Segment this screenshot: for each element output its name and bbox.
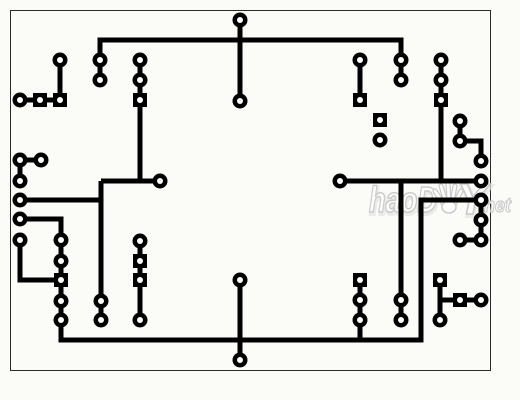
pad square (40,100) bbox=[33, 93, 47, 107]
wire (20,160)-(41,160) bbox=[20, 158, 41, 163]
pad (20,100) bbox=[13, 93, 28, 108]
pad (41,160) bbox=[34, 153, 49, 168]
pad (20,200) bbox=[13, 193, 28, 208]
pad (401,80) bbox=[394, 73, 409, 88]
pad (481,300) bbox=[474, 293, 489, 308]
pad square (60,100) bbox=[53, 93, 67, 107]
pad square (460,300) bbox=[453, 293, 467, 307]
pad (61,301) bbox=[54, 294, 69, 309]
pad (481,161) bbox=[474, 154, 489, 169]
pad (481,220) bbox=[474, 213, 489, 228]
wire vertical x=140 square(140,100) to T(140,181) bbox=[138, 100, 143, 181]
wire (460,141)-(481,141)-(481,161) bbox=[460, 141, 481, 161]
pad (240,360) bbox=[233, 353, 248, 368]
wire column x=441 top (441,60)-(441,100) bbox=[439, 60, 444, 100]
pad (140,320) bbox=[133, 313, 148, 328]
pad square (140,280) bbox=[133, 273, 147, 287]
pad (441,80) bbox=[434, 73, 449, 88]
pad (101,320) bbox=[94, 313, 109, 328]
pad square (360,280) bbox=[353, 273, 367, 287]
pad (100,80) bbox=[93, 73, 108, 88]
pad square (380,120) bbox=[373, 113, 387, 127]
wire horizontal y=200 pad(20,200) to T(101,200) bbox=[20, 198, 101, 203]
wire left horizontal y=181 (101,181)-(160,181) bbox=[101, 179, 160, 184]
pad (240,280) bbox=[233, 273, 248, 288]
pad (61,240) bbox=[54, 233, 69, 248]
wire stub (401,60)-(401,80) bbox=[399, 60, 404, 80]
pad square (441,100) bbox=[434, 93, 448, 107]
pad (440,320) bbox=[433, 313, 448, 328]
wire right horizontal y=181 (340,181)-(481,181) bbox=[340, 179, 481, 184]
pad square (140,100) bbox=[133, 93, 147, 107]
pad (481,240) bbox=[474, 233, 489, 248]
pad (61,261) bbox=[54, 254, 69, 269]
pad (100,60) bbox=[93, 53, 108, 68]
wire vertical x=240 pad(240,20) to pad(240,101) bbox=[238, 20, 243, 101]
pad (61,320) bbox=[54, 313, 69, 328]
pad (481,200) bbox=[474, 193, 489, 208]
pad (460,240) bbox=[453, 233, 468, 248]
pad (140,241) bbox=[133, 234, 148, 249]
wire column x=140 top (140,60)-(140,100) bbox=[138, 60, 143, 100]
wire x=481 chain (481,200)-(481,240) bbox=[479, 200, 484, 240]
wire big loop (20,219)-(61,219)-(61,340)-(421,340)-(421,200)-(481,200) bbox=[20, 200, 481, 340]
pad (20,160) bbox=[13, 153, 28, 168]
pad (340,181) bbox=[333, 174, 348, 189]
wire bar y=100 (20,100)-(60,100) bbox=[20, 98, 60, 103]
pad (101,301) bbox=[94, 294, 109, 309]
pad (140,80) bbox=[133, 73, 148, 88]
pad (401,60) bbox=[394, 53, 409, 68]
wire column x=360 (360,280)-(360,340) bbox=[358, 280, 363, 340]
pad (240,101) bbox=[233, 94, 248, 109]
wire vertical x=240 bottom pad(240,280) to pad(240,360) bbox=[238, 280, 243, 360]
pad square (140,261) bbox=[133, 254, 147, 268]
wire (440,300)-(481,300) bbox=[440, 298, 481, 303]
pad square (61,280) bbox=[54, 273, 68, 287]
wire stub (100,60)-(100,80) bbox=[98, 60, 103, 80]
pad square (360,100) bbox=[353, 93, 367, 107]
pad (360,60) bbox=[353, 53, 368, 68]
pad (360,300) bbox=[353, 293, 368, 308]
wire (60,60)-(60,100) bbox=[58, 60, 63, 100]
wire vertical x=101 (101,181)-(101,320) bbox=[99, 181, 104, 320]
pad (401,300) bbox=[394, 293, 409, 308]
wire column x=140 middle (140,241)-(140,320) bbox=[138, 241, 143, 320]
pad (481,181) bbox=[474, 174, 489, 189]
pad (20,219) bbox=[13, 212, 28, 227]
pad (20,181) bbox=[13, 174, 28, 189]
pad (401,320) bbox=[394, 313, 409, 328]
pad (460,141) bbox=[453, 134, 468, 149]
pad (160,181) bbox=[153, 174, 168, 189]
pad (140,60) bbox=[133, 53, 148, 68]
wire (360,60)-(360,100) bbox=[358, 60, 363, 100]
pad (360,320) bbox=[353, 313, 368, 328]
pad (20,240) bbox=[13, 233, 28, 248]
wire (20,240)-(20,280)-(61,280) bbox=[20, 240, 61, 280]
watermark hand icon bbox=[435, 184, 461, 213]
pad (460,121) bbox=[453, 114, 468, 129]
wire top bus (100,60)-(100,40)-(401,40)-(401,60) bbox=[100, 40, 401, 60]
pad (441,60) bbox=[434, 53, 449, 68]
pad (240,20) bbox=[233, 13, 248, 28]
wire vertical x=441 square(441,100) to T(441,181) bbox=[439, 100, 444, 181]
pad (60,60) bbox=[53, 53, 68, 68]
watermark haoDIY.net bbox=[369, 175, 512, 226]
traces bbox=[20, 20, 481, 360]
pad square (440,280) bbox=[433, 273, 447, 287]
wire (460,240)-(481,240) bbox=[460, 238, 481, 243]
wire vertical x=401 (401,181)-(401,320) bbox=[399, 181, 404, 320]
pad (380,140) bbox=[373, 133, 388, 148]
wire (20,160)-(20,181) bbox=[18, 160, 23, 181]
wire (440,280)-(440,320) bbox=[438, 280, 443, 320]
wire stub (460,121)-(460,141) bbox=[458, 121, 463, 141]
